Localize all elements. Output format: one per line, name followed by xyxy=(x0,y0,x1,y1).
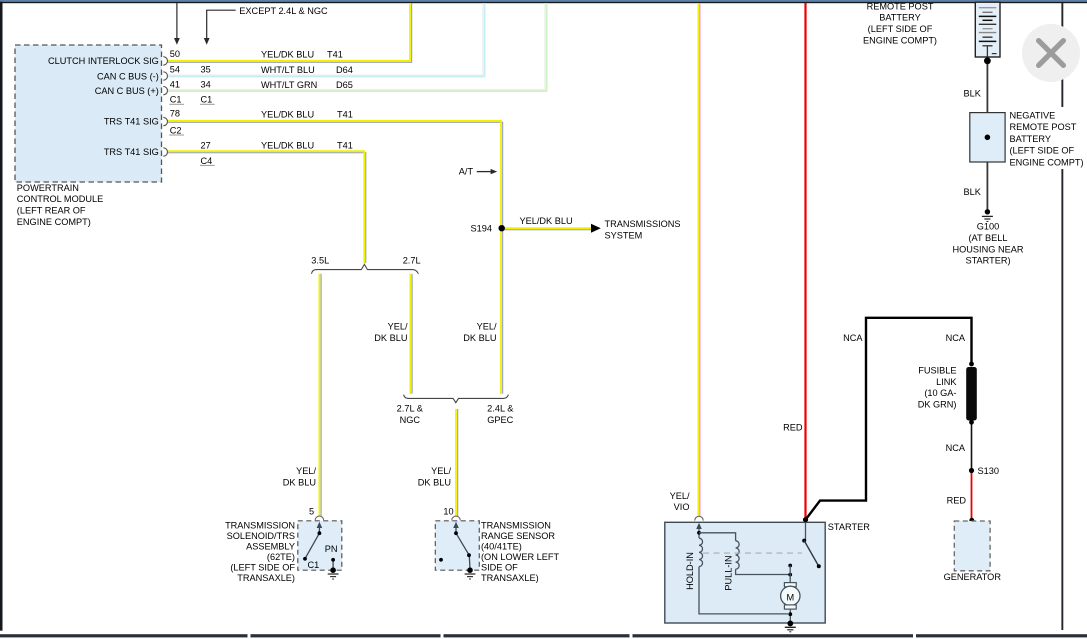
svg-text:50: 50 xyxy=(170,49,180,59)
svg-text:TRS T41 SIG: TRS T41 SIG xyxy=(104,147,159,157)
solenoid caption xyxy=(225,521,295,584)
bottom tab bars xyxy=(0,634,1087,637)
wire RED splice S130 to generator xyxy=(971,472,973,519)
svg-text:SOLENOID/TRS: SOLENOID/TRS xyxy=(227,531,295,541)
svg-text:G100: G100 xyxy=(977,222,999,232)
svg-text:ENGINE COMPT): ENGINE COMPT) xyxy=(1010,157,1084,167)
PCM connector arc pin 50 xyxy=(163,57,167,65)
svg-text:54: 54 xyxy=(170,65,180,75)
svg-text:NCA: NCA xyxy=(843,333,863,343)
arrow into PCM pin 50 column from top xyxy=(174,3,180,45)
svg-text:YEL/DK BLU: YEL/DK BLU xyxy=(261,49,314,59)
wire YEL/DK BLU 3.5L branch down to transmission solenoid pin 5 xyxy=(319,274,321,516)
svg-text:(AT BELL: (AT BELL xyxy=(969,233,1008,243)
svg-text:T41: T41 xyxy=(337,140,353,150)
wire BLK battery negative post to negative remote post battery xyxy=(986,62,988,113)
svg-text:D64: D64 xyxy=(336,65,353,75)
svg-text:BLK: BLK xyxy=(964,88,982,98)
svg-text:ASSEMBLY: ASSEMBLY xyxy=(246,542,295,552)
svg-text:WHT/LT BLU: WHT/LT BLU xyxy=(261,65,315,75)
ground below solenoid xyxy=(330,567,336,573)
fusible link F1 xyxy=(969,362,974,367)
PCM connector arc pin 78 xyxy=(163,117,167,125)
wire black fusible link to splice S130 xyxy=(971,422,973,469)
ground below starter xyxy=(787,621,793,627)
ground G100 xyxy=(985,209,990,214)
PCM connector arc pin 41 xyxy=(163,86,167,94)
svg-text:(ON LOWER LEFT: (ON LOWER LEFT xyxy=(481,552,559,562)
PCM connector arc pin 27 xyxy=(163,148,167,156)
svg-text:M: M xyxy=(786,592,794,602)
svg-text:DK BLU: DK BLU xyxy=(283,477,316,487)
svg-text:YEL/: YEL/ xyxy=(296,466,316,476)
svg-text:REMOTE POST: REMOTE POST xyxy=(1010,122,1077,132)
svg-text:RANGE SENSOR: RANGE SENSOR xyxy=(481,531,555,541)
negative remote post battery box xyxy=(970,113,1005,162)
svg-text:T41: T41 xyxy=(337,110,353,120)
svg-text:C2: C2 xyxy=(170,125,182,135)
svg-text:TRANSAXLE): TRANSAXLE) xyxy=(237,573,295,583)
starter pull-in coil branch xyxy=(699,533,789,575)
svg-text:TRANSMISSION: TRANSMISSION xyxy=(225,521,295,531)
transmission range sensor box xyxy=(435,521,479,570)
svg-text:3.5L: 3.5L xyxy=(311,256,329,266)
svg-text:C1: C1 xyxy=(308,560,320,570)
caption REMOTE POST BATTERY xyxy=(863,1,937,45)
svg-text:HOUSING NEAR: HOUSING NEAR xyxy=(953,244,1024,254)
svg-text:2.7L &: 2.7L & xyxy=(397,404,423,414)
starter hold-in coil branch xyxy=(699,528,788,614)
svg-text:TRANSMISSION: TRANSMISSION xyxy=(481,521,551,531)
svg-text:(10 GA-: (10 GA- xyxy=(924,388,956,398)
range sensor caption xyxy=(481,521,559,584)
svg-text:35: 35 xyxy=(201,65,211,75)
svg-text:CLUTCH INTERLOCK SIG: CLUTCH INTERLOCK SIG xyxy=(48,56,159,66)
connector arc at range sensor pin 10 xyxy=(452,516,461,520)
caption NEGATIVE REMOTE POST BATTERY xyxy=(1010,111,1084,168)
svg-text:(40/41TE): (40/41TE) xyxy=(481,542,522,552)
svg-text:DK BLU: DK BLU xyxy=(374,333,407,343)
svg-text:PN: PN xyxy=(325,544,338,554)
svg-text:WHT/LT GRN: WHT/LT GRN xyxy=(261,80,317,90)
svg-text:CONTROL MODULE: CONTROL MODULE xyxy=(17,194,103,204)
node junction red wire + NCA wire at starter xyxy=(803,517,808,522)
wire YEL/DK BLU 2.7L branch down to 2.7L&NGC brace xyxy=(410,274,412,394)
svg-text:TRS T41 SIG: TRS T41 SIG xyxy=(104,117,159,127)
svg-text:YEL/: YEL/ xyxy=(670,491,690,501)
svg-text:BATTERY: BATTERY xyxy=(1010,134,1052,144)
close button X xyxy=(1022,24,1080,82)
svg-text:ENGINE COMPT): ENGINE COMPT) xyxy=(17,217,91,227)
wire D64 WHT/LT BLU from PCM pin 54 up to top edge xyxy=(168,3,485,77)
svg-text:SIDE OF: SIDE OF xyxy=(481,563,518,573)
svg-text:S194: S194 xyxy=(471,223,492,233)
svg-text:SYSTEM: SYSTEM xyxy=(605,231,643,241)
battery BT1 remote post battery symbol xyxy=(975,2,1000,57)
svg-text:YEL/DK BLU: YEL/DK BLU xyxy=(520,216,573,226)
svg-text:CAN C BUS (+): CAN C BUS (+) xyxy=(95,86,159,96)
svg-text:A/T: A/T xyxy=(459,167,474,177)
svg-text:LINK: LINK xyxy=(936,377,957,387)
wire D65 WHT/LT GRN from PCM pin 41 up to top edge xyxy=(168,3,547,91)
svg-text:41: 41 xyxy=(170,80,180,90)
svg-text:YEL/: YEL/ xyxy=(477,322,497,332)
PCM module box U1 POWERTRAIN CONTROL MODULE xyxy=(15,45,162,182)
svg-text:34: 34 xyxy=(201,80,211,90)
arrow into PCM pin 35 column with EXCEPT 2.4L & NGC tag xyxy=(204,10,236,45)
connector arc at solenoid pin 5 xyxy=(315,516,324,520)
caption G100 (AT BELL HOUSING NEAR STARTER) xyxy=(953,222,1024,266)
svg-text:DK BLU: DK BLU xyxy=(463,333,496,343)
svg-text:YEL/: YEL/ xyxy=(388,322,408,332)
node battery negative post xyxy=(984,57,991,64)
svg-text:10: 10 xyxy=(443,507,453,517)
starter box xyxy=(665,522,825,623)
svg-text:STARTER: STARTER xyxy=(828,522,870,532)
svg-text:78: 78 xyxy=(170,109,180,119)
starter solenoid switch xyxy=(805,522,807,540)
svg-text:RED: RED xyxy=(783,423,803,433)
svg-text:EXCEPT 2.4L & NGC: EXCEPT 2.4L & NGC xyxy=(239,6,328,16)
svg-text:(LEFT REAR OF: (LEFT REAR OF xyxy=(17,206,86,216)
svg-text:C4: C4 xyxy=(201,156,213,166)
node splice S130 xyxy=(969,468,974,473)
svg-text:HOLD-IN: HOLD-IN xyxy=(685,552,695,590)
svg-text:NCA: NCA xyxy=(946,443,966,453)
PCM connector arc pin 54 xyxy=(163,72,167,80)
wire RED from top edge down to starter junction xyxy=(804,3,806,519)
svg-text:5: 5 xyxy=(309,507,314,517)
svg-text:D65: D65 xyxy=(336,80,353,90)
svg-text:YEL/: YEL/ xyxy=(431,466,451,476)
solenoid switch arrow and contacts xyxy=(305,528,333,571)
svg-text:(LEFT SIDE OF: (LEFT SIDE OF xyxy=(1010,146,1075,156)
generator G1 box xyxy=(969,518,974,523)
wire NCA black from starter junction up and over to fusible link xyxy=(806,318,972,520)
frame left bar xyxy=(0,2,3,631)
svg-text:STARTER): STARTER) xyxy=(965,256,1010,266)
svg-text:REMOTE POST: REMOTE POST xyxy=(867,1,934,11)
node S194 splice dot xyxy=(499,225,505,231)
svg-text:FUSIBLE: FUSIBLE xyxy=(918,365,956,375)
svg-text:(LEFT SIDE OF: (LEFT SIDE OF xyxy=(230,563,295,573)
svg-text:C1: C1 xyxy=(201,95,213,105)
brace splitting T41 into 3.5L and 2.7L branches xyxy=(312,264,419,273)
dashed link line inside starter xyxy=(703,552,802,554)
svg-text:27: 27 xyxy=(201,141,211,151)
svg-text:YEL/DK BLU: YEL/DK BLU xyxy=(261,140,314,150)
wire T41 YEL/DK BLU from PCM pin 78 to splice S194 and down to brace xyxy=(168,121,503,394)
svg-text:CAN C BUS (-): CAN C BUS (-) xyxy=(97,71,159,81)
svg-text:2.4L &: 2.4L & xyxy=(487,404,513,414)
svg-text:S130: S130 xyxy=(978,466,999,476)
motor M1 starter motor xyxy=(784,583,796,587)
svg-text:NCA: NCA xyxy=(946,333,966,343)
wire YEL/DK BLU from splice S194 to transmissions system arrow xyxy=(503,228,592,230)
svg-text:NGC: NGC xyxy=(400,415,421,425)
frame top blue strip xyxy=(0,0,1087,2)
range sensor switch arrow and contacts xyxy=(456,528,470,571)
svg-text:2.7L: 2.7L xyxy=(403,256,421,266)
svg-text:BATTERY: BATTERY xyxy=(879,13,921,23)
wire BLK negative remote post battery to ground G100 xyxy=(986,162,988,210)
svg-text:POWERTRAIN: POWERTRAIN xyxy=(17,183,79,193)
svg-text:GENERATOR: GENERATOR xyxy=(944,572,1002,582)
svg-text:DK GRN): DK GRN) xyxy=(918,400,957,410)
wire T41 YEL/DK BLU from PCM pin 27 down to 3.5L/2.7L brace xyxy=(168,151,366,263)
node motor bottom junction xyxy=(788,612,792,616)
caption FUSIBLE LINK (10 GA- DK GRN) xyxy=(918,365,958,409)
ground below range sensor xyxy=(467,567,473,573)
svg-text:BLK: BLK xyxy=(964,187,982,197)
svg-text:DK BLU: DK BLU xyxy=(418,477,451,487)
wire YEL/DK BLU merged branch down to transmission range sensor pin 10 xyxy=(456,409,458,516)
svg-text:C1: C1 xyxy=(170,95,182,105)
merge brace 2.7L&NGC / 2.4L&GPEC xyxy=(404,395,509,403)
arrow to TRANSMISSIONS SYSTEM xyxy=(591,224,601,233)
svg-text:GPEC: GPEC xyxy=(487,415,513,425)
white mask so caption overlays frame line xyxy=(1008,107,1087,169)
wire T41 YEL/DK BLU from PCM pin 50 up to top edge xyxy=(168,3,412,62)
svg-text:(62TE): (62TE) xyxy=(267,552,295,562)
connector arc at starter YEL/VIO entry xyxy=(695,516,704,520)
svg-text:YEL/DK BLU: YEL/DK BLU xyxy=(261,110,314,120)
svg-text:(LEFT SIDE OF: (LEFT SIDE OF xyxy=(868,24,933,34)
wire YEL/VIO from top edge down to starter xyxy=(698,3,700,517)
transmission solenoid/TRS assembly box xyxy=(298,521,342,570)
node splice at starter coil feed xyxy=(697,531,701,535)
svg-text:VIO: VIO xyxy=(674,502,690,512)
svg-text:T41: T41 xyxy=(327,49,343,59)
svg-text:TRANSMISSIONS: TRANSMISSIONS xyxy=(605,219,681,229)
svg-text:NEGATIVE: NEGATIVE xyxy=(1010,111,1056,121)
svg-text:TRANSAXLE): TRANSAXLE) xyxy=(481,573,539,583)
svg-text:RED: RED xyxy=(947,496,967,506)
motor feed contacts xyxy=(788,564,792,568)
frame right bar xyxy=(1061,3,1063,630)
svg-text:PULL-IN: PULL-IN xyxy=(724,555,734,590)
svg-text:ENGINE COMPT): ENGINE COMPT) xyxy=(863,36,937,46)
